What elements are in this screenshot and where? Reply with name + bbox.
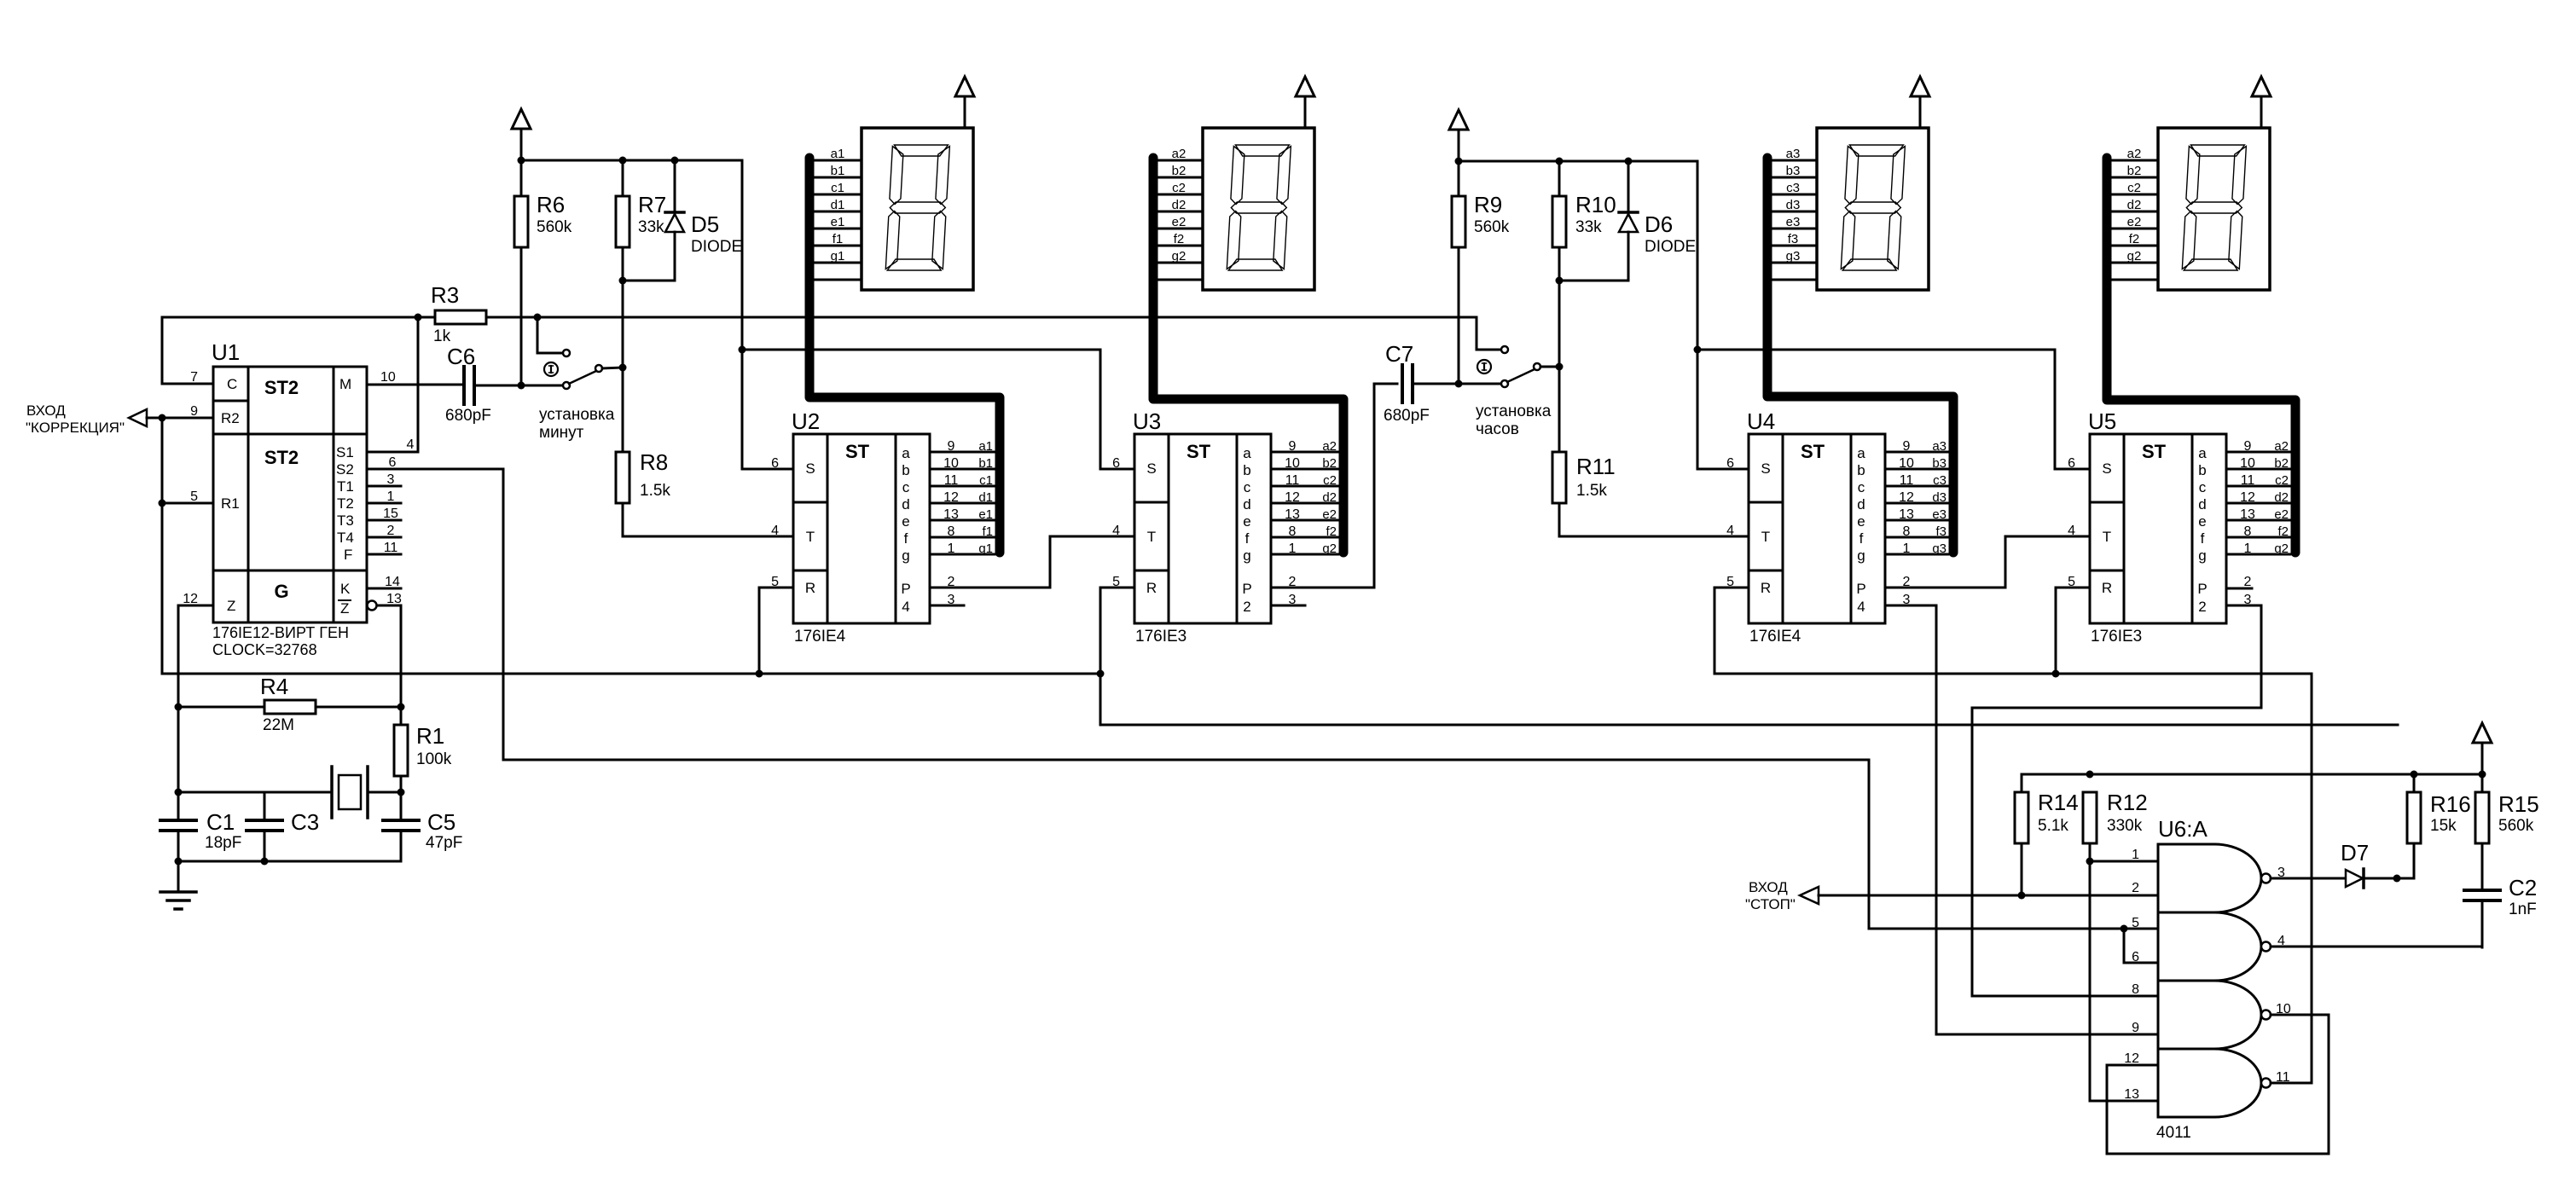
pin d2 of DS4: [2111, 198, 2158, 212]
svg-text:13: 13: [943, 507, 959, 522]
power symbol VDD (display DS4): [2252, 77, 2271, 128]
wire: [400, 605, 403, 707]
svg-text:a1: a1: [978, 439, 993, 454]
svg-text:установка: установка: [1476, 402, 1552, 420]
svg-text:11: 11: [944, 473, 959, 488]
pin 11 (c1) of U2: [930, 473, 995, 488]
svg-text:R: R: [1146, 580, 1157, 596]
resistor R15: [2475, 743, 2539, 889]
svg-text:T: T: [1761, 529, 1770, 545]
pin 12 (d1) of U2: [930, 490, 995, 505]
junction: [1455, 158, 1463, 165]
svg-text:f2: f2: [1174, 232, 1185, 246]
svg-text:g3: g3: [1786, 249, 1801, 263]
pin 1 (g2) of U3: [1271, 541, 1338, 556]
common pin of DS2: [1156, 279, 1203, 281]
pin 10 (M) of U1: [367, 370, 464, 385]
pin 13 (Z-bar) of U1: [368, 592, 403, 611]
svg-text:1: 1: [2132, 848, 2139, 862]
wire: [1972, 605, 2261, 996]
quad NAND gate U6:A (4011): [2156, 816, 2261, 1142]
bus DS4 to U5: [2107, 158, 2295, 553]
svg-text:c3: c3: [1786, 181, 1800, 195]
svg-text:15: 15: [383, 507, 398, 521]
svg-text:10: 10: [1285, 456, 1300, 471]
svg-text:g: g: [1243, 547, 1250, 564]
pin 9 (a2) of U3: [1271, 439, 1338, 454]
svg-text:e1: e1: [978, 507, 993, 522]
svg-text:e: e: [2198, 513, 2206, 530]
svg-text:330k: 330k: [2107, 817, 2143, 835]
wire: [1885, 605, 2158, 1034]
counter chip U3 (176IE3): [1112, 408, 1271, 646]
junction: [415, 314, 422, 321]
pin 13 (e1) of U2: [930, 507, 995, 522]
pin b2 of DS4: [2111, 164, 2158, 178]
svg-text:11: 11: [384, 541, 398, 555]
pin e2 of DS4: [2111, 215, 2158, 229]
counter chip U5 (176IE3): [2068, 408, 2226, 646]
svg-text:S1: S1: [336, 444, 354, 460]
wire: [162, 673, 1100, 675]
svg-text:8: 8: [2244, 524, 2252, 539]
svg-text:R: R: [805, 580, 815, 596]
common pin of DS3: [1770, 279, 1817, 281]
pin 14 (K) of U1: [367, 575, 401, 589]
svg-text:176IE3: 176IE3: [1135, 628, 1186, 646]
power symbol VDD (display DS1): [955, 77, 974, 128]
svg-text:Z: Z: [340, 600, 349, 617]
svg-text:R1: R1: [221, 495, 240, 512]
wire: [1819, 895, 2158, 897]
svg-text:4: 4: [771, 524, 779, 538]
pin 8 (f2) of U3: [1271, 524, 1338, 539]
svg-text:1nF: 1nF: [2509, 900, 2537, 918]
svg-text:13: 13: [2240, 507, 2255, 522]
wire: [1714, 673, 2312, 675]
svg-text:1: 1: [948, 541, 955, 556]
wire: [521, 159, 742, 162]
crystal X1: [332, 767, 368, 818]
svg-text:e2: e2: [2274, 507, 2289, 522]
svg-text:2: 2: [387, 524, 395, 538]
svg-text:d: d: [902, 496, 909, 512]
pin 12 (d3) of U4: [1885, 490, 1948, 505]
wire: [2271, 946, 2482, 948]
svg-text:установка: установка: [539, 406, 615, 424]
switch 'ustanovka chasov' (SW2): [1501, 346, 1540, 387]
output bubble pin 3: [2261, 874, 2271, 883]
junction: [671, 157, 679, 165]
wire input 13 row: [2090, 1100, 2158, 1103]
diode D7: [2341, 840, 2369, 888]
junction: [2018, 892, 2026, 900]
capacitor C2: [2464, 875, 2537, 947]
pin a2 of DS2: [1156, 147, 1203, 161]
svg-text:U5: U5: [2088, 408, 2116, 434]
svg-text:1k: 1k: [433, 327, 451, 345]
svg-text:5.1k: 5.1k: [2038, 817, 2068, 835]
svg-text:c: c: [902, 479, 910, 495]
common pin of DS4: [2111, 279, 2158, 281]
wire: [930, 605, 964, 607]
svg-text:14: 14: [385, 575, 400, 589]
svg-text:T1: T1: [337, 478, 354, 495]
wire: [1271, 605, 1305, 607]
svg-text:6: 6: [2132, 950, 2139, 964]
svg-text:D6: D6: [1645, 211, 1673, 237]
svg-text:d: d: [1857, 496, 1865, 512]
svg-text:176IE4: 176IE4: [1749, 628, 1801, 646]
svg-text:f2: f2: [2129, 232, 2140, 246]
pin 11 (c3) of U4: [1885, 473, 1948, 488]
wire: [1714, 588, 1749, 674]
svg-text:b: b: [1243, 462, 1250, 478]
wire: [2311, 674, 2313, 1083]
resistor R6: [514, 160, 572, 385]
pin d2 of DS2: [1156, 198, 1203, 212]
input arrow VHOD STOP: [1745, 879, 1819, 912]
capacitor C3: [247, 792, 319, 861]
svg-text:6: 6: [771, 456, 779, 471]
svg-text:"СТОП": "СТОП": [1745, 896, 1796, 912]
junction: [2052, 670, 2060, 678]
pin f3 of DS3: [1770, 232, 1817, 246]
svg-text:D7: D7: [2341, 840, 2369, 866]
svg-text:9: 9: [190, 404, 198, 419]
svg-text:c2: c2: [1323, 473, 1337, 488]
pin d1 of DS1: [815, 198, 862, 212]
pin d3 of DS3: [1770, 198, 1817, 212]
capacitor C5: [383, 792, 462, 861]
wire: [177, 605, 180, 820]
pin 15 (T3) of U1: [367, 507, 401, 521]
counter chip U4 (176IE4): [1726, 408, 1885, 646]
svg-text:5: 5: [2132, 916, 2139, 930]
svg-text:2: 2: [1243, 599, 1250, 615]
svg-text:C2: C2: [2509, 875, 2537, 900]
pin 11 (F) of U1: [367, 541, 401, 555]
svg-text:c1: c1: [979, 473, 993, 488]
pin e1 of DS1: [815, 215, 862, 229]
svg-text:T: T: [2103, 529, 2111, 545]
junction: [1556, 363, 1564, 371]
svg-text:a3: a3: [1932, 439, 1947, 454]
pin b3 of DS3: [1770, 164, 1817, 178]
svg-text:10: 10: [2240, 456, 2255, 471]
svg-text:S: S: [2102, 460, 2111, 477]
pin 6 (S2) of U1: [367, 455, 503, 470]
pin 9 (R2) of U1: [162, 404, 213, 419]
svg-text:f1: f1: [982, 524, 993, 539]
pin 10 (b3) of U4: [1885, 456, 1948, 471]
svg-text:U6:A: U6:A: [2158, 816, 2208, 842]
pin b2 of DS2: [1156, 164, 1203, 178]
resistor R11: [1552, 452, 1749, 536]
svg-text:C7: C7: [1385, 341, 1413, 367]
pin 7 (C) of U1: [162, 317, 213, 385]
svg-text:b1: b1: [831, 164, 845, 178]
wire: [1869, 928, 2158, 930]
svg-text:a: a: [2198, 445, 2207, 461]
svg-text:680pF: 680pF: [1384, 407, 1430, 425]
junction: [175, 858, 183, 866]
svg-text:18pF: 18pF: [205, 834, 241, 852]
svg-text:9: 9: [2132, 1021, 2139, 1035]
junction: [397, 789, 405, 796]
svg-text:d2: d2: [1172, 198, 1186, 212]
pin g1 of DS1: [815, 249, 862, 263]
svg-text:33k: 33k: [638, 218, 664, 236]
svg-text:g3: g3: [1932, 541, 1947, 556]
svg-text:b3: b3: [1932, 456, 1947, 471]
svg-text:T2: T2: [337, 495, 354, 512]
svg-text:S: S: [805, 460, 815, 477]
bus DS3 to U4: [1767, 158, 1953, 553]
junction: [1694, 346, 1702, 354]
svg-text:15k: 15k: [2430, 817, 2457, 835]
svg-text:6: 6: [2068, 456, 2075, 471]
svg-text:f2: f2: [1326, 524, 1337, 539]
junction: [619, 157, 627, 165]
pin c2 of DS4: [2111, 181, 2158, 195]
svg-text:G: G: [274, 581, 288, 602]
svg-text:U3: U3: [1133, 408, 1161, 434]
pin 13 (e2) of U5: [2226, 507, 2290, 522]
svg-text:d: d: [1243, 496, 1250, 512]
wire: [742, 349, 1100, 351]
wire: [178, 860, 401, 863]
svg-text:c3: c3: [1933, 473, 1947, 488]
svg-text:K: K: [340, 581, 351, 597]
wire: [1459, 160, 1697, 163]
capacitor C1: [160, 809, 241, 861]
diode D5: [623, 160, 742, 281]
pin 9 (a1) of U2: [930, 439, 995, 454]
junction: [619, 364, 627, 372]
junction: [261, 858, 269, 866]
svg-text:a: a: [1243, 445, 1251, 461]
svg-text:b3: b3: [1786, 164, 1801, 178]
svg-text:a2: a2: [1322, 439, 1337, 454]
svg-text:e2: e2: [1322, 507, 1337, 522]
svg-text:a: a: [902, 445, 910, 461]
pin 8 (f2) of U5: [2226, 524, 2290, 539]
svg-text:b2: b2: [2274, 456, 2289, 471]
resistor R4: [178, 674, 401, 734]
svg-text:R1: R1: [416, 723, 444, 749]
wire: [367, 317, 418, 452]
pin b1 of DS1: [815, 164, 862, 178]
wire: [1271, 384, 1397, 588]
svg-text:DIODE: DIODE: [1645, 238, 1696, 256]
wire: [1868, 760, 1871, 929]
svg-text:U1: U1: [212, 339, 240, 365]
svg-text:1.5k: 1.5k: [1576, 482, 1607, 500]
wire: [1885, 536, 2090, 588]
svg-text:S: S: [1146, 460, 1156, 477]
7-segment display DS1: [862, 128, 973, 290]
pin a1 of DS1: [815, 147, 862, 161]
svg-text:U2: U2: [792, 408, 820, 434]
wire: [502, 469, 505, 760]
switch symbol: [544, 362, 558, 376]
svg-text:b2: b2: [2127, 164, 2142, 178]
svg-text:11: 11: [1285, 473, 1300, 488]
svg-text:f: f: [1245, 530, 1250, 547]
svg-text:ВХОД: ВХОД: [1749, 879, 1788, 895]
svg-text:560k: 560k: [2498, 817, 2534, 835]
resistor R9: [1452, 161, 1510, 384]
wire: [2271, 877, 2346, 880]
svg-text:c2: c2: [1172, 181, 1186, 195]
pin 5 (R1) of U1: [162, 489, 213, 504]
svg-text:e3: e3: [1786, 215, 1801, 229]
pin e3 of DS3: [1770, 215, 1817, 229]
pin 10 (b2) of U3: [1271, 456, 1338, 471]
svg-text:33k: 33k: [1575, 218, 1602, 236]
wire: [2055, 350, 2090, 469]
svg-text:g1: g1: [831, 249, 845, 263]
svg-text:ST2: ST2: [264, 447, 299, 468]
svg-text:11: 11: [1900, 473, 1914, 488]
wire: [368, 791, 401, 794]
junction: [1097, 670, 1105, 678]
switch symbol: [1477, 360, 1491, 373]
junction: [1625, 158, 1633, 165]
common pin of DS1: [815, 279, 862, 281]
pin 8 (f3) of U4: [1885, 524, 1948, 539]
svg-text:g1: g1: [978, 541, 993, 556]
junction: [534, 314, 542, 321]
power symbol VDD (left rail): [512, 109, 531, 160]
wire: [178, 791, 332, 794]
svg-text:a2: a2: [2127, 147, 2142, 161]
svg-text:100k: 100k: [416, 750, 452, 768]
junction: [518, 157, 525, 165]
svg-text:e: e: [1857, 513, 1865, 530]
svg-text:часов: часов: [1476, 420, 1519, 438]
svg-text:10: 10: [380, 370, 396, 385]
svg-text:P: P: [1242, 581, 1251, 597]
wire: [486, 316, 1477, 319]
junction: [2411, 771, 2418, 779]
svg-text:ST: ST: [845, 441, 870, 462]
counter chip U2 (176IE4): [771, 408, 930, 646]
pin e2 of DS2: [1156, 215, 1203, 229]
svg-text:M: M: [339, 376, 351, 392]
svg-text:d: d: [2198, 496, 2206, 512]
pin 11 (c2) of U5: [2226, 473, 2290, 488]
junction: [2086, 858, 2094, 866]
svg-text:8: 8: [948, 524, 955, 539]
wire: [2226, 588, 2252, 590]
switch 'ustanovka minut' (SW1): [563, 350, 602, 389]
svg-text:c: c: [1244, 479, 1251, 495]
svg-text:T: T: [1147, 529, 1156, 545]
label ustanovka minut: [539, 406, 615, 442]
svg-text:6: 6: [1726, 456, 1734, 471]
svg-text:минут: минут: [539, 424, 584, 442]
svg-text:ВХОД: ВХОД: [26, 402, 66, 419]
svg-text:6: 6: [389, 455, 397, 470]
clock chip U1 (176IE12): [212, 339, 367, 658]
svg-text:13: 13: [1285, 507, 1300, 522]
svg-text:12: 12: [1899, 490, 1914, 505]
pin f2 of DS2: [1156, 232, 1203, 246]
wire: [602, 368, 623, 368]
resistor R8: [616, 449, 793, 536]
svg-text:c2: c2: [2275, 473, 2289, 488]
svg-text:1.5k: 1.5k: [640, 482, 670, 500]
svg-text:e: e: [902, 513, 909, 530]
wire: [161, 418, 164, 674]
svg-text:g: g: [2198, 547, 2206, 564]
svg-text:13: 13: [2124, 1087, 2139, 1102]
pin c1 of DS1: [815, 181, 862, 195]
pin 8 (f1) of U2: [930, 524, 995, 539]
wire: [2090, 860, 2158, 863]
pin f1 of DS1: [815, 232, 862, 246]
output bubble pin 4: [2261, 942, 2271, 952]
svg-text:C: C: [227, 376, 237, 392]
7-segment display DS2: [1203, 128, 1314, 290]
svg-text:1: 1: [1289, 541, 1297, 556]
svg-text:4: 4: [1857, 599, 1865, 615]
wire top rail of stop RC: [2022, 773, 2482, 776]
wire: [2271, 1082, 2312, 1085]
wire: [2124, 929, 2158, 963]
svg-text:e1: e1: [831, 215, 845, 229]
svg-text:S: S: [1761, 460, 1770, 477]
svg-text:C1: C1: [206, 809, 235, 835]
power symbol VDD (display DS2): [1296, 77, 1314, 128]
svg-text:T3: T3: [337, 512, 354, 529]
junction: [518, 382, 525, 390]
svg-text:b2: b2: [1172, 164, 1186, 178]
wire: [2364, 877, 2414, 880]
capacitor C6: [445, 344, 491, 425]
svg-text:d3: d3: [1932, 490, 1947, 505]
wire: [162, 316, 435, 319]
wire: [537, 317, 563, 353]
svg-text:F: F: [344, 547, 352, 563]
svg-text:S2: S2: [336, 461, 354, 478]
svg-text:b1: b1: [978, 456, 993, 471]
resistor R14: [2015, 774, 2079, 895]
svg-text:g: g: [1857, 547, 1865, 564]
svg-text:176IE12-ВИРТ ГЕН: 176IE12-ВИРТ ГЕН: [212, 624, 349, 641]
svg-text:f: f: [2201, 530, 2205, 547]
wire: [759, 588, 793, 674]
label ustanovka chasov: [1476, 402, 1552, 438]
pin a3 of DS3: [1770, 147, 1817, 161]
power symbol VDD (middle rail): [1449, 110, 1468, 161]
pin 3 (T1) of U1: [367, 472, 401, 487]
svg-text:560k: 560k: [537, 218, 572, 236]
pin 12 (d2) of U3: [1271, 490, 1338, 505]
svg-text:g: g: [902, 547, 909, 564]
svg-text:R15: R15: [2498, 791, 2539, 817]
wire: [503, 759, 1869, 761]
pin f2 of DS4: [2111, 232, 2158, 246]
svg-text:C3: C3: [291, 809, 319, 835]
wire: [742, 160, 793, 469]
svg-text:2: 2: [2198, 599, 2206, 615]
svg-text:4: 4: [407, 437, 415, 452]
resistor R1: [394, 707, 452, 792]
junction: [2121, 925, 2128, 933]
